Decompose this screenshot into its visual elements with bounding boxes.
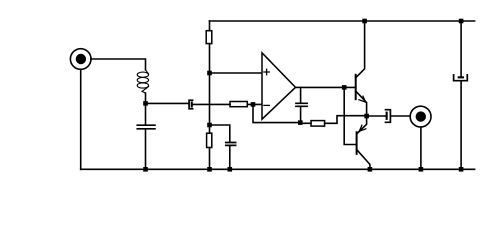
- node C: feedback node: [298, 120, 303, 125]
- wire: output terminal down to ground rail: [420, 127, 422, 169]
- wire: inductor to node A: [145, 93, 147, 101]
- wire: ground bottom rail: [81, 168, 475, 170]
- wire: V+ top rail: [210, 20, 475, 22]
- node: lower bias tap: [207, 123, 212, 128]
- electrolytic capacitor C5 straight plate: [386, 112, 388, 120]
- node: battery ground junction: [459, 167, 464, 172]
- battery B1 straight plate: [458, 76, 464, 78]
- wire: top rail to battery B1: [460, 21, 462, 76]
- output terminal J2 outer: [410, 106, 431, 127]
- transistor Q1 collector: [356, 21, 365, 78]
- battery B1 curved plate: [454, 75, 468, 81]
- electrolytic capacitor C1 curved plate: [189, 100, 193, 109]
- capacitor C3: [296, 103, 307, 106]
- node: battery top junction: [459, 19, 464, 24]
- wire: R2 to op-amp inverting input: [247, 103, 262, 105]
- wire: op-amp output to Q1 base: [296, 86, 356, 88]
- resistor R2: [230, 102, 247, 107]
- node: R4 ground junction: [207, 167, 212, 172]
- wire: node A down to C2: [145, 105, 147, 124]
- op-amp U1 minus sign: [264, 104, 269, 106]
- transistor Q2 emitter: [357, 118, 366, 134]
- wire: node E to C5: [367, 115, 386, 117]
- wire: bias tap to C4 branch: [210, 125, 230, 142]
- inductor L1: [137, 70, 148, 93]
- output terminal J2 inner dot: [416, 111, 426, 121]
- input terminal J1 outer: [70, 49, 91, 70]
- wire: input terminal down to ground rail: [80, 69, 82, 169]
- node E: output emitters node: [364, 114, 369, 119]
- node A: input signal node: [143, 101, 148, 106]
- wire: C5 to output terminal: [391, 115, 410, 117]
- node B: inverting input node: [251, 102, 256, 107]
- wire: node D down to Q2 base: [344, 87, 356, 144]
- node D: op-amp output / bases junction: [342, 85, 347, 90]
- node: + input bias tap: [207, 71, 212, 76]
- wire: R4 to ground rail: [209, 148, 211, 170]
- node: C2 ground junction: [143, 167, 148, 172]
- resistor R3: [311, 121, 325, 127]
- op-amp U1 plus sign: [264, 69, 269, 74]
- wire: R3 up to output node (crosses Q2 base line): [325, 116, 365, 124]
- transistor Q2 base bar: [356, 132, 358, 154]
- wire: input terminal to inductor: [91, 59, 146, 70]
- transistor Q1 emitter: [356, 91, 367, 116]
- node: Q2 collector to ground rail: [368, 167, 373, 172]
- electrolytic capacitor C5 curved plate: [386, 110, 391, 123]
- wire: node B down and right to feedback node: [253, 104, 300, 122]
- node: output ground junction: [419, 167, 424, 172]
- wire: R1 down bias line to R4: [209, 44, 211, 134]
- wire: C1 to R2 (crosses bias line): [193, 103, 230, 105]
- input terminal J1 inner dot: [76, 54, 86, 64]
- wire: C2 to ground rail: [145, 130, 147, 170]
- op-amp U1 triangle: [262, 53, 296, 119]
- transistor Q1 emitter arrow: [359, 96, 366, 102]
- node: C4 ground junction: [228, 167, 233, 172]
- wire: feedback node to R3: [300, 122, 311, 124]
- transistor Q2 emitter arrow: [359, 125, 366, 131]
- resistor R1: [206, 31, 212, 44]
- wire: top rail to R1: [209, 21, 211, 31]
- wire: node A to C1: [146, 102, 189, 104]
- wire: bias tap to op-amp + input: [210, 72, 263, 74]
- wire: output drop to C3: [300, 87, 302, 102]
- capacitor C2: [137, 125, 155, 129]
- wire: C4 to ground rail: [229, 146, 231, 169]
- transistor Q2 collector: [357, 150, 370, 169]
- node: Q1 collector to top rail: [362, 19, 367, 24]
- electrolytic capacitor C1 straight plate: [191, 101, 193, 107]
- transistor Q1 base bar: [355, 75, 357, 99]
- capacitor C4: [226, 143, 236, 146]
- wire: battery B1 to ground rail: [460, 82, 462, 170]
- wire: C3 to feedback node: [300, 107, 302, 123]
- resistor R4: [207, 133, 212, 147]
